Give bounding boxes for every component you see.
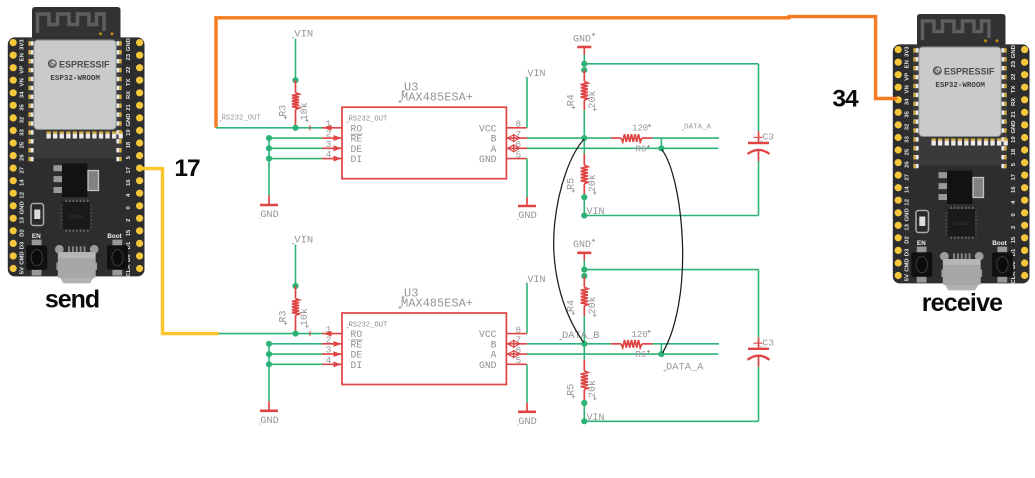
- pin 5 stub GND: [506, 363, 527, 365]
- wire bottom loop to C3: [584, 420, 758, 422]
- svg-text:R6: R6: [636, 145, 647, 155]
- wire top loop to C3: [584, 269, 758, 271]
- label U3: [401, 286, 418, 300]
- label U3: [401, 81, 418, 95]
- svg-text:GND: GND: [573, 34, 591, 45]
- ground GND (left, top): [259, 195, 279, 221]
- wire across A row: [583, 344, 585, 360]
- svg-text:R4: R4: [566, 94, 577, 106]
- net label DATA_A: [664, 361, 705, 373]
- svg-text:DATA_B: DATA_B: [562, 330, 599, 342]
- ESP32 devkit board (send): [8, 7, 145, 283]
- svg-text:GND: GND: [260, 415, 279, 427]
- power flag VIN at pin 8: [526, 275, 546, 286]
- wire net RS232_OUT into pin 1: [216, 127, 322, 129]
- svg-text:R5: R5: [566, 178, 577, 190]
- resistor R3 10k (bottom): [279, 286, 312, 334]
- svg-text:receive: receive: [922, 289, 1003, 317]
- pin 3 stub with in-arrow: [322, 145, 342, 151]
- svg-text:20k: 20k: [587, 296, 599, 314]
- ground GND at pin 5 (top): [517, 159, 537, 223]
- svg-text:R5: R5: [566, 384, 577, 396]
- svg-text:VIN: VIN: [528, 275, 546, 286]
- svg-text:VIN: VIN: [528, 69, 546, 80]
- node junction top loop: [581, 267, 587, 280]
- pin 8 stub VCC: [506, 127, 527, 129]
- svg-text:GND: GND: [260, 209, 279, 221]
- node junction VIN row: [581, 418, 587, 424]
- wire VIN to R3: [295, 39, 297, 80]
- node junction chain/B row: [581, 341, 587, 347]
- svg-text:120: 120: [632, 124, 648, 134]
- resistor R4 20k (bottom): [566, 276, 599, 317]
- svg-text:VIN: VIN: [294, 29, 313, 41]
- pin 2 stub with in-arrow: [322, 341, 342, 347]
- wire R6 tap to A row: [660, 344, 662, 354]
- power flag VIN (bottom of chain): [585, 413, 605, 424]
- node junction at R3 top: [292, 283, 298, 289]
- net label DATA_B: [560, 330, 600, 342]
- node junction at R3 top: [292, 77, 298, 83]
- svg-text:send: send: [45, 286, 99, 314]
- svg-text:VIN: VIN: [587, 207, 605, 218]
- svg-text:34: 34: [832, 86, 859, 113]
- pin 1 stub with out-arrow: [322, 331, 342, 337]
- svg-text:20k: 20k: [587, 90, 599, 108]
- op IC U3 MAX485ESA+ body (top): [342, 107, 506, 179]
- svg-text:17: 17: [174, 155, 200, 182]
- node junction VIN row: [581, 212, 587, 218]
- wire gnd to loop: [583, 55, 585, 64]
- svg-text:MAX485ESA+: MAX485ESA+: [401, 91, 473, 105]
- pin 8 stub VCC: [506, 333, 527, 335]
- svg-text:20k: 20k: [587, 380, 599, 398]
- resistor R6 120 termination (bottom): [611, 340, 653, 348]
- pin origin tick: [309, 125, 311, 130]
- capacitor C3 (bottom): [748, 337, 775, 367]
- wire R6 tap to A row: [660, 138, 662, 148]
- power flag VIN (bottom of chain): [585, 207, 605, 218]
- pin names RO RE DE DI: [351, 329, 363, 371]
- wire R5 to VIN row: [583, 403, 585, 421]
- capacitor C3 (top): [748, 131, 775, 161]
- node junction on A row: [658, 351, 664, 357]
- resistor R5 20k (top): [566, 154, 599, 197]
- svg-text:RS232_OUT: RS232_OUT: [222, 115, 262, 123]
- wire net A row: [527, 147, 719, 149]
- svg-text:GND: GND: [518, 210, 537, 222]
- pin 6 stub (A) bidirectional arrows: [506, 145, 527, 152]
- node junction top loop: [581, 61, 587, 73]
- annotation hand-drawn loop right arc: [662, 150, 683, 354]
- wire bottom loop to C3: [584, 215, 758, 217]
- resistor R6 120 termination (top): [611, 134, 653, 142]
- label 120: [632, 330, 651, 340]
- pin 6 stub (A) bidirectional arrows: [506, 351, 527, 358]
- wire yellow GPIO17 link: [139, 169, 219, 334]
- svg-text:C3: C3: [763, 132, 775, 143]
- pin numbers 8 7 6 5: [515, 324, 521, 366]
- svg-text:GND: GND: [479, 154, 497, 165]
- svg-text:DI: DI: [351, 154, 363, 165]
- ground GND (left, bottom): [259, 401, 279, 427]
- pin names VCC B A GND: [479, 123, 497, 165]
- wire net B row: [527, 343, 719, 345]
- ground GND (top of bias chain, bottom): [573, 239, 595, 261]
- wire bus RE/DE/DI to ground: [269, 138, 322, 195]
- pin 7 stub (B) bidirectional arrows: [506, 135, 527, 142]
- wire R5 to VIN row: [583, 197, 585, 215]
- pin numbers 8 7 6 5: [515, 119, 521, 161]
- wire VIN to R3: [295, 245, 297, 286]
- label RS232_OUT inside box: [347, 116, 389, 124]
- net label DATA_A (top): [682, 124, 712, 132]
- wire net A row: [527, 353, 719, 355]
- node junction R3 / RO wire: [292, 125, 298, 131]
- svg-text:DATA_A: DATA_A: [666, 361, 704, 373]
- label MAX485ESA+: [398, 91, 473, 105]
- wire across A row: [583, 138, 585, 154]
- wire net RS232_OUT into pin 1: [219, 333, 322, 335]
- wire C3 leads vertical: [758, 270, 760, 422]
- op IC U3 MAX485ESA+ body (bottom): [342, 313, 506, 385]
- annotation hand-drawn loop left arc: [554, 139, 585, 343]
- wire bus RE/DE/DI to ground: [269, 344, 322, 401]
- pin names VCC B A GND: [479, 329, 497, 371]
- resistor R5 20k (bottom): [566, 360, 599, 403]
- pin 5 stub GND: [506, 158, 527, 160]
- svg-text:VIN: VIN: [294, 234, 313, 246]
- wire VCC to VIN: [526, 283, 528, 333]
- svg-text:C3: C3: [763, 338, 775, 349]
- pin numbers 1-4: [326, 324, 332, 366]
- pin origin tick: [309, 331, 311, 336]
- svg-text:20k: 20k: [587, 174, 599, 192]
- net label RS232_OUT: [220, 115, 262, 123]
- svg-text:R4: R4: [566, 300, 577, 312]
- node junction chain/B row: [581, 135, 587, 141]
- wire top loop to C3: [584, 63, 758, 65]
- wire gnd to loop: [583, 260, 585, 269]
- svg-text:10k: 10k: [299, 308, 311, 326]
- svg-text:10k: 10k: [299, 102, 311, 120]
- node junction R5 bottom: [581, 400, 587, 406]
- ground GND (top of bias chain, top): [573, 33, 595, 55]
- pin 2 stub with in-arrow: [322, 135, 342, 141]
- wire orange GPIO34 link: [216, 17, 897, 128]
- ground GND at pin 5 (bottom): [517, 364, 537, 428]
- wire R4 to B row: [583, 316, 585, 344]
- pin names RO RE DE DI: [351, 123, 363, 165]
- svg-text:VIN: VIN: [587, 413, 605, 424]
- node junction on A row: [658, 145, 664, 151]
- wire C3 leads vertical: [758, 64, 760, 216]
- svg-text:GND: GND: [518, 416, 537, 428]
- pin 7 stub (B) bidirectional arrows: [506, 340, 527, 347]
- label 120: [632, 124, 651, 134]
- power flag VIN at pin 8: [526, 69, 546, 80]
- svg-text:R3: R3: [279, 310, 290, 322]
- power flag VIN (feeds R3 pull-up, top section): [292, 29, 313, 41]
- label MAX485ESA+: [398, 296, 473, 310]
- node junctions on ground bus: [266, 341, 272, 368]
- resistor R4 20k (top): [566, 70, 599, 111]
- pin 4 stub with in-arrow: [322, 156, 342, 162]
- node junctions on ground bus: [266, 135, 272, 162]
- pin 1 stub with out-arrow: [322, 125, 342, 131]
- pin 4 stub with in-arrow: [322, 361, 342, 367]
- svg-text:R3: R3: [279, 105, 290, 117]
- svg-text:DATA_A: DATA_A: [684, 124, 712, 132]
- svg-text:DI: DI: [351, 360, 363, 371]
- svg-text:120: 120: [632, 330, 648, 340]
- label R6: [636, 350, 651, 360]
- ESP32 devkit board (receive): [893, 14, 1030, 290]
- pin 3 stub with in-arrow: [322, 351, 342, 357]
- node junction R3 / RO wire: [292, 331, 298, 337]
- wire net B row: [527, 137, 719, 139]
- svg-text:R6: R6: [636, 350, 647, 360]
- svg-text:MAX485ESA+: MAX485ESA+: [401, 296, 473, 310]
- label R6: [636, 145, 651, 155]
- wire R4 to B row: [583, 110, 585, 138]
- power flag VIN (feeds R3 pull-up, bottom section): [292, 234, 313, 246]
- label RS232_OUT inside box: [347, 322, 389, 330]
- resistor R3 10k (top): [279, 80, 312, 128]
- svg-text:GND: GND: [573, 240, 591, 251]
- svg-text:GND: GND: [479, 360, 497, 371]
- pin numbers 1-4: [326, 118, 332, 160]
- node junction R5 bottom: [581, 194, 587, 200]
- wire VCC to VIN: [526, 78, 528, 128]
